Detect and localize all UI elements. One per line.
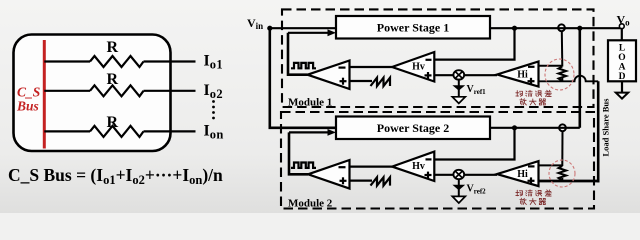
wire sense drop 2: [561, 131, 563, 166]
svg-text:O: O: [618, 53, 625, 63]
svg-text:R: R: [107, 39, 119, 56]
wire PWM feedback into PS1 with arrow: [288, 32, 329, 34]
wire comparator output riser: [288, 33, 308, 75]
sawtooth ramp symbol 2: [371, 177, 391, 185]
wire sense drop: [561, 31, 564, 66]
C_S bus red line: [43, 40, 46, 149]
svg-text:Hv: Hv: [412, 161, 425, 172]
wire Hv minus sense: [434, 28, 514, 59]
svg-text:C_S: C_S: [17, 85, 40, 100]
svg-text:D: D: [619, 72, 626, 82]
wire Hv-2 minus sense: [434, 128, 514, 160]
wire Vin down-feed to module 2: [270, 28, 336, 128]
wire summer-2 to Hi-2 output: [464, 174, 497, 176]
node junction dot on rail 2: [512, 125, 517, 130]
sensor tap circle on rail: [558, 24, 565, 31]
ellipsis dots: [212, 100, 215, 119]
node Vin junction dot: [267, 26, 272, 31]
PWM square-wave symbol: [291, 63, 316, 68]
svg-text:Power Stage 1: Power Stage 1: [377, 21, 449, 35]
svg-text:R: R: [107, 71, 119, 88]
power stage U5 box: [336, 117, 490, 140]
resistor R (top): [90, 56, 144, 67]
rounded enclosure box: [14, 35, 171, 152]
svg-text:Hi: Hi: [517, 69, 528, 80]
wire output rail module 2: [490, 127, 580, 129]
svg-text:Hi: Hi: [517, 169, 528, 180]
svg-text:Bus: Bus: [16, 99, 39, 114]
svg-text:Module 2: Module 2: [288, 198, 333, 210]
svg-text:Hv: Hv: [412, 61, 425, 72]
svg-text:Load Share Bus: Load Share Bus: [601, 98, 611, 157]
op-amp Hv U3: [392, 52, 434, 82]
svg-text:Power Stage 2: Power Stage 2: [377, 121, 449, 135]
op-amp Hi U4 (current-share error amp): [497, 62, 539, 87]
wire Hv plus to summer: [434, 74, 453, 76]
ground arrow below load: [621, 81, 623, 92]
resistor R_sense2: [559, 166, 567, 181]
node junction dot on output rail: [512, 26, 517, 31]
label share-error amp (red) module 2 line 2: [520, 198, 546, 204]
wire comparator-2 output riser: [289, 132, 308, 174]
wire load share bus vertical: [597, 81, 600, 182]
wire Hi-2 plus / share bus bottom: [539, 180, 600, 183]
op-amp Hv U7: [392, 152, 434, 181]
wire comparator plus input: [350, 80, 373, 82]
label share-error amp (red) module 1 line 1: [516, 90, 552, 96]
op-amp Hi U8 (current-share error amp): [497, 161, 539, 186]
wire module-2 output riser to Vo rail: [578, 27, 581, 128]
wire comparator-2 plus input: [350, 180, 373, 182]
label share-error amp (red) module 1 line 2: [520, 99, 546, 105]
resistor R (middle): [90, 85, 144, 96]
sensor tap circle on rail 2: [559, 124, 566, 131]
reference source Vref1: [452, 80, 486, 104]
wire PWM feedback into PS2 with arrow: [289, 131, 330, 133]
wire output rail module 1: [490, 27, 622, 29]
wire line 2: [44, 90, 90, 92]
wire summer to Hi output: [464, 74, 497, 76]
wire Vin to Power Stage 1: [270, 27, 336, 29]
op-amp PWM comparator U6: [308, 160, 350, 189]
wire line 1: [44, 60, 90, 62]
wire Hv-2 plus to summer: [434, 174, 453, 176]
wire line 2 right: [144, 90, 196, 92]
module 1 dashed boundary: [282, 9, 594, 107]
wire Hi minus input: [539, 65, 563, 67]
load box: [608, 40, 636, 81]
svg-text:Module 1: Module 1: [288, 97, 332, 109]
wire Vo drop to load: [621, 28, 623, 40]
sawtooth ramp symbol: [371, 78, 391, 86]
wire Hi plus / share line with hop: [539, 76, 599, 82]
terminal circle Vo: [619, 24, 624, 29]
node joint dot module outputs: [577, 26, 582, 31]
power stage U1 box: [336, 16, 490, 39]
wire line 3 right: [144, 130, 196, 132]
wire Hi-2 minus input: [539, 164, 563, 166]
resistor R (bottom): [90, 126, 144, 137]
summing node X2: [453, 170, 464, 179]
wire line 3: [44, 130, 90, 132]
op-amp PWM comparator U2: [308, 61, 350, 90]
svg-text:R: R: [107, 114, 119, 131]
svg-text:L: L: [619, 44, 625, 54]
label share-error amp (red) module 2 line 1: [516, 190, 552, 196]
highlight circle (red) module 2: [549, 160, 575, 187]
summing node X1: [453, 70, 464, 79]
resistor R_sense1: [559, 67, 567, 82]
reference source Vref2: [452, 179, 486, 203]
wire comparator-2 minus input: [350, 166, 393, 168]
module 2 dashed boundary: [281, 112, 594, 209]
PWM square-wave symbol 2: [291, 163, 316, 168]
highlight circle (red) module 1: [545, 59, 574, 90]
wire comparator minus input: [350, 66, 393, 68]
svg-text:A: A: [619, 63, 626, 73]
wire line 1 right: [144, 60, 196, 62]
